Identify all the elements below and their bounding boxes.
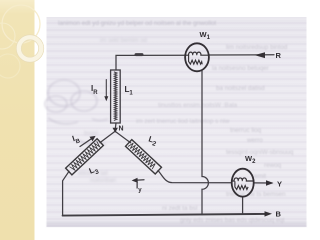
- svg-text:R: R: [276, 51, 282, 60]
- svg-text:gniy eds znises bas eds qtdesc: gniy eds znises bas eds qtdescuq eqt: [180, 217, 285, 224]
- svg-text:bsqsl: bsqsl: [84, 131, 98, 137]
- svg-text:im zert tnerruc liod laitnetop: im zert tnerruc liod laitnetop s niw: [136, 118, 230, 125]
- svg-text:tnerruc lioq: tnerruc lioq: [230, 127, 262, 134]
- svg-text:B: B: [276, 210, 282, 219]
- svg-text:N: N: [119, 126, 124, 133]
- svg-text:lim noitsredsup bintod: lim noitsredsup bintod: [226, 44, 288, 51]
- svg-text:noitsnbari: noitsnbari: [90, 178, 116, 184]
- svg-text:ba noitszel datisd: ba noitszel datisd: [216, 85, 265, 92]
- svg-text:la noitsesno betuqer: la noitsesno betuqer: [212, 65, 269, 72]
- svg-text:rewoq: rewoq: [264, 162, 282, 169]
- svg-text:im sekt bemim od: im sekt bemim od: [100, 38, 147, 44]
- svg-text:tinusttos ensim noitsW :Bala: tinusttos ensim noitsW :Bala: [158, 102, 238, 109]
- svg-text:Y: Y: [277, 180, 282, 189]
- svg-text:ni zedt ta bsl: ni zedt ta bsl: [162, 205, 197, 212]
- svg-text:tessqint-oqniW-sbnsuuq: tessqint-oqniW-sbnsuuq: [226, 149, 294, 156]
- svg-text:werro: werro: [246, 137, 263, 144]
- svg-text:lanimon edt yd gnizu yd belper: lanimon edt yd gnizu yd belper od noitse…: [58, 20, 216, 27]
